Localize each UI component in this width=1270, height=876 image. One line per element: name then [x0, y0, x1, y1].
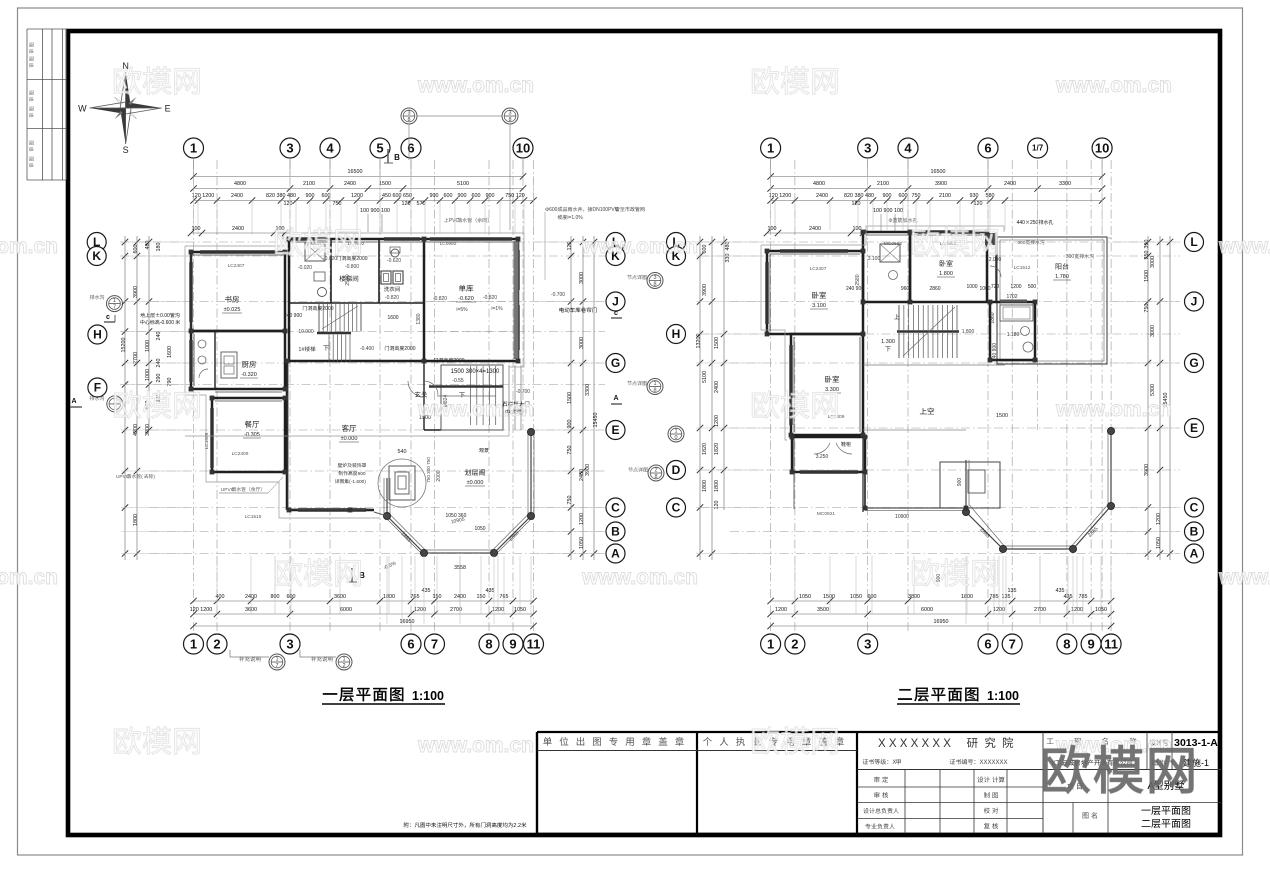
svg-text:120: 120: [284, 201, 293, 207]
svg-text:240 900: 240 900: [284, 313, 302, 319]
svg-text:审 图: 审 图: [29, 90, 36, 101]
svg-text:1: 1: [190, 140, 197, 155]
svg-text:1:100: 1:100: [987, 689, 1019, 703]
svg-text:750 120: 750 120: [505, 193, 525, 199]
svg-text:B: B: [1190, 525, 1199, 539]
svg-text:www.om.cn: www.om.cn: [581, 235, 698, 258]
svg-text:2100: 2100: [877, 181, 889, 187]
svg-text:2400: 2400: [344, 181, 356, 187]
svg-text:1.800: 1.800: [962, 329, 975, 335]
svg-text:1.300: 1.300: [881, 339, 895, 345]
svg-text:2400: 2400: [809, 226, 821, 232]
svg-text:审 图: 审 图: [29, 42, 36, 53]
svg-text:8: 8: [407, 117, 410, 123]
svg-text:-0.305: -0.305: [244, 432, 260, 438]
svg-text:120 1200: 120 1200: [769, 193, 791, 199]
svg-text:1050: 1050: [579, 537, 585, 549]
svg-text:A: A: [71, 398, 76, 405]
svg-text:1/7: 1/7: [1032, 144, 1044, 153]
svg-text:1820: 1820: [702, 443, 708, 455]
svg-text:3.100: 3.100: [812, 303, 826, 309]
svg-text:-0.620: -0.620: [323, 256, 337, 262]
svg-text:5300: 5300: [1150, 384, 1156, 396]
svg-text:-0.55: -0.55: [452, 378, 464, 384]
svg-text:120: 120: [567, 242, 573, 251]
svg-text:450 600 650: 450 600 650: [382, 193, 412, 199]
svg-text:i=1%: i=1%: [491, 306, 503, 312]
svg-text:135: 135: [1008, 588, 1017, 594]
svg-text:0.00: 0.00: [160, 313, 170, 319]
svg-text:435: 435: [1056, 588, 1065, 594]
svg-text:8: 8: [654, 474, 657, 480]
svg-text:LC1515: LC1515: [245, 514, 262, 520]
svg-text:DN100PVC: DN100PVC: [593, 207, 619, 213]
svg-text:审 图: 审 图: [29, 140, 36, 151]
svg-text:900: 900: [567, 420, 573, 429]
svg-text:LC2407: LC2407: [810, 266, 827, 272]
svg-text:-0.400: -0.400: [360, 346, 374, 352]
svg-text:1: 1: [190, 636, 197, 651]
svg-text:X X X X X X X: X X X X X X X: [878, 738, 951, 750]
svg-text:120: 120: [402, 201, 411, 207]
svg-text:900: 900: [430, 193, 439, 199]
svg-text:3.100: 3.100: [868, 256, 881, 262]
svg-text:3: 3: [286, 140, 293, 155]
svg-text:1200: 1200: [579, 513, 585, 525]
svg-text:3000: 3000: [1150, 256, 1156, 268]
svg-text:3: 3: [508, 111, 511, 117]
svg-text:www.om.cn: www.om.cn: [1055, 398, 1172, 421]
svg-text:1200: 1200: [775, 607, 787, 613]
svg-text:1: 1: [767, 636, 774, 651]
svg-text:600: 600: [322, 193, 331, 199]
svg-text:120: 120: [974, 201, 983, 207]
svg-text:www.om.cn: www.om.cn: [0, 235, 58, 258]
svg-text:540: 540: [398, 449, 407, 455]
svg-text:S: S: [123, 145, 129, 155]
svg-text:750: 750: [567, 446, 573, 455]
svg-text:2000: 2000: [322, 306, 333, 312]
svg-text:i=1.0%: i=1.0%: [567, 215, 583, 221]
svg-text:1200: 1200: [351, 193, 363, 199]
svg-text:LC2407: LC2407: [228, 263, 245, 269]
svg-text:1500: 1500: [823, 594, 835, 600]
svg-text:-1: -1: [1201, 758, 1209, 768]
svg-text:100: 100: [853, 226, 862, 232]
svg-text:2860: 2860: [929, 286, 940, 292]
svg-text:6: 6: [984, 636, 991, 651]
svg-text:820 380 480: 820 380 480: [844, 193, 874, 199]
svg-text:-0.620: -0.620: [387, 258, 401, 264]
svg-text:120 1200: 120 1200: [190, 607, 212, 613]
svg-text:1500 300×4=1300: 1500 300×4=1300: [451, 369, 500, 375]
svg-text:6: 6: [984, 140, 991, 155]
svg-text:2.000: 2.000: [989, 257, 1002, 263]
svg-text:审 图: 审 图: [29, 56, 36, 67]
svg-text:330: 330: [725, 254, 731, 263]
svg-text:120: 120: [852, 201, 861, 207]
svg-text:9: 9: [509, 636, 516, 651]
svg-text:8: 8: [508, 117, 511, 123]
svg-text:1380: 1380: [416, 313, 422, 324]
svg-text:3013-1-A: 3013-1-A: [1174, 737, 1218, 749]
svg-text:3900: 3900: [935, 181, 947, 187]
svg-text:10: 10: [1095, 140, 1109, 155]
svg-text:LC1509: LC1509: [204, 432, 210, 449]
svg-text:1:100: 1:100: [412, 689, 444, 703]
svg-text:1: 1: [342, 657, 345, 663]
svg-text:750: 750: [333, 201, 342, 207]
svg-text:435: 435: [422, 588, 431, 594]
svg-text:J: J: [612, 295, 619, 309]
svg-text:300: 300: [1066, 254, 1075, 260]
svg-text:5: 5: [376, 140, 383, 155]
svg-text:16500: 16500: [931, 169, 946, 175]
svg-text:120 1200: 120 1200: [192, 193, 214, 199]
svg-text:F: F: [94, 381, 101, 395]
svg-text:600: 600: [899, 193, 908, 199]
svg-text:720: 720: [991, 284, 1000, 290]
svg-text:3000: 3000: [579, 272, 585, 284]
svg-text:390: 390: [1144, 240, 1150, 249]
svg-text:LC0992: LC0992: [440, 241, 457, 247]
svg-text:-0.620: -0.620: [458, 296, 474, 302]
svg-text:3.250: 3.250: [816, 454, 829, 460]
svg-text:2400: 2400: [232, 226, 244, 232]
svg-text:600: 600: [472, 193, 481, 199]
svg-text:www.om.cn: www.om.cn: [1218, 235, 1270, 258]
svg-text:6000: 6000: [921, 607, 933, 613]
svg-text:750: 750: [1144, 304, 1150, 313]
svg-text:8: 8: [653, 281, 656, 287]
svg-text:±0.000: ±0.000: [341, 436, 358, 442]
svg-text:1.800: 1.800: [939, 271, 953, 277]
svg-text:8: 8: [653, 387, 656, 393]
svg-text:1: 1: [275, 657, 278, 663]
svg-text:1000: 1000: [979, 286, 990, 292]
svg-text:240: 240: [156, 332, 162, 341]
svg-text:1500: 1500: [567, 392, 573, 404]
svg-text:900: 900: [957, 478, 963, 487]
svg-text:MC0692: MC0692: [884, 241, 902, 247]
svg-text:4: 4: [326, 140, 334, 155]
svg-text:-0.020: -0.020: [298, 265, 312, 271]
svg-text:8: 8: [1063, 636, 1070, 651]
svg-text:c: c: [106, 314, 110, 321]
svg-text:4: 4: [904, 140, 912, 155]
svg-text:1200: 1200: [1010, 284, 1021, 290]
svg-text:3900: 3900: [1144, 464, 1150, 476]
svg-text:100 900 100: 100 900 100: [873, 208, 903, 214]
svg-text:930: 930: [970, 193, 979, 199]
svg-text:1: 1: [767, 140, 774, 155]
svg-text:1800: 1800: [714, 480, 720, 492]
svg-text:6000: 6000: [340, 607, 352, 613]
svg-text:16500: 16500: [348, 169, 363, 175]
svg-text:11: 11: [1104, 636, 1118, 651]
svg-text:600: 600: [133, 245, 139, 254]
svg-text:LC2409: LC2409: [232, 451, 249, 457]
svg-text:3.300: 3.300: [825, 387, 839, 393]
svg-text:1.180: 1.180: [1007, 332, 1020, 338]
svg-text:PVC: PVC: [449, 218, 460, 224]
svg-text:B: B: [394, 153, 400, 162]
svg-text:750: 750: [912, 193, 921, 199]
svg-text:c: c: [614, 310, 618, 317]
svg-text:D: D: [672, 463, 681, 477]
svg-text:11: 11: [527, 636, 541, 651]
svg-text:790: 790: [167, 378, 173, 387]
svg-text:C: C: [1190, 501, 1199, 515]
svg-text:600: 600: [702, 245, 708, 254]
svg-text:600: 600: [444, 193, 453, 199]
svg-text:820 380 480: 820 380 480: [266, 193, 296, 199]
svg-text:3300: 3300: [1059, 181, 1071, 187]
svg-text:XXXXXXX: XXXXXXX: [979, 760, 1007, 766]
svg-text:570: 570: [417, 201, 426, 207]
svg-text:1000: 1000: [145, 340, 151, 352]
svg-text:1: 1: [674, 429, 677, 435]
svg-text:500: 500: [1028, 284, 1037, 290]
svg-text:290: 290: [156, 374, 162, 383]
svg-text:250: 250: [1030, 220, 1039, 226]
svg-text:3900: 3900: [702, 284, 708, 296]
svg-text:100: 100: [768, 226, 777, 232]
svg-text:2400: 2400: [714, 381, 720, 393]
svg-text:10900: 10900: [895, 514, 909, 520]
svg-text:X: X: [892, 760, 896, 766]
svg-text:6: 6: [407, 140, 414, 155]
svg-text:±0.000: ±0.000: [467, 480, 484, 486]
svg-text:1820: 1820: [714, 443, 720, 455]
svg-text:3: 3: [864, 140, 871, 155]
svg-text:3900: 3900: [133, 286, 139, 298]
svg-text:900: 900: [883, 193, 892, 199]
svg-text:2: 2: [654, 468, 657, 474]
svg-text:审 图: 审 图: [29, 156, 36, 167]
svg-text:4800: 4800: [234, 181, 246, 187]
svg-text:www.om.cn: www.om.cn: [417, 734, 534, 757]
svg-text:180: 180: [156, 243, 162, 252]
svg-text:G: G: [611, 356, 620, 370]
svg-text:E: E: [165, 104, 171, 114]
svg-text:100 900 100: 100 900 100: [360, 208, 390, 214]
svg-text:440: 440: [1017, 220, 1026, 226]
svg-text:2400: 2400: [816, 193, 828, 199]
svg-text:1200: 1200: [714, 415, 720, 427]
svg-text:100: 100: [192, 226, 201, 232]
svg-text:H: H: [672, 327, 681, 341]
svg-text:-0.820: -0.820: [433, 296, 447, 302]
svg-text:W: W: [78, 104, 87, 114]
svg-text:2580: 2580: [345, 274, 351, 285]
svg-text:960: 960: [901, 286, 910, 292]
svg-text:2.2: 2.2: [513, 823, 521, 829]
svg-text:900: 900: [486, 193, 495, 199]
svg-text:10.000: 10.000: [298, 329, 314, 335]
svg-text:750 300 750: 750 300 750: [426, 457, 431, 483]
svg-text:审 图: 审 图: [29, 106, 36, 117]
svg-text:3: 3: [864, 636, 871, 651]
svg-text:C: C: [611, 501, 620, 515]
svg-text:www.om.cn: www.om.cn: [417, 74, 534, 97]
svg-text:16950: 16950: [934, 619, 949, 625]
svg-text:-0.600: -0.600: [160, 320, 174, 326]
svg-text:3000: 3000: [579, 337, 585, 349]
svg-text:www.om.cn: www.om.cn: [1218, 566, 1270, 589]
svg-text:A: A: [613, 395, 618, 402]
svg-text:i=5%: i=5%: [456, 307, 468, 313]
svg-text:3900: 3900: [585, 464, 591, 476]
svg-text:10: 10: [516, 140, 530, 155]
svg-text:900: 900: [458, 193, 467, 199]
svg-text:120: 120: [714, 501, 720, 510]
svg-text:L: L: [1190, 235, 1197, 249]
svg-text:1050: 1050: [474, 526, 485, 532]
svg-text:3: 3: [653, 275, 656, 281]
svg-text:5100: 5100: [702, 371, 708, 383]
svg-text:3300: 3300: [585, 384, 591, 396]
svg-text:6: 6: [407, 636, 414, 651]
svg-text:2000: 2000: [453, 358, 464, 364]
svg-text:A: A: [1190, 547, 1199, 561]
svg-text:1: 1: [113, 298, 116, 304]
svg-text:435: 435: [486, 588, 495, 594]
svg-text:480: 480: [725, 242, 731, 251]
svg-text:www.om.cn: www.om.cn: [581, 566, 698, 589]
svg-text:-0.820: -0.820: [483, 295, 497, 301]
svg-text:K: K: [92, 249, 101, 263]
svg-text:2100: 2100: [939, 193, 951, 199]
svg-text:2000: 2000: [436, 470, 442, 481]
svg-text:2: 2: [342, 663, 345, 669]
svg-text:-0.700: -0.700: [516, 389, 530, 395]
svg-text:2000: 2000: [356, 256, 367, 262]
svg-text:0: 0: [674, 435, 677, 441]
svg-text:3000: 3000: [1150, 325, 1156, 337]
svg-text:J: J: [1191, 295, 1198, 309]
svg-text:1: 1: [653, 381, 656, 387]
svg-text:240 900: 240 900: [846, 286, 864, 292]
svg-text:1#: 1#: [298, 347, 305, 353]
svg-text:3500: 3500: [817, 607, 829, 613]
svg-text:www.om.cn: www.om.cn: [0, 566, 58, 589]
svg-text:1860: 1860: [990, 312, 996, 323]
svg-text:1800: 1800: [702, 480, 708, 492]
svg-text:7: 7: [113, 304, 116, 310]
svg-text:G: G: [1189, 356, 1198, 370]
svg-text:1600: 1600: [167, 346, 173, 358]
svg-text:240 900: 240 900: [992, 343, 998, 361]
svg-text:900: 900: [306, 193, 315, 199]
svg-text:2: 2: [213, 636, 220, 651]
svg-text:7: 7: [275, 663, 278, 669]
svg-text:15450: 15450: [593, 413, 599, 428]
svg-text:H: H: [93, 328, 102, 342]
svg-text:1500: 1500: [996, 413, 1008, 419]
svg-text:-0.820: -0.820: [385, 295, 399, 301]
svg-text:-0.800: -0.800: [345, 264, 359, 270]
svg-text:±0.025: ±0.025: [224, 307, 241, 313]
svg-text:E: E: [611, 423, 619, 437]
svg-text:15200: 15200: [121, 338, 127, 353]
svg-text:1050: 1050: [799, 594, 811, 600]
svg-text:2400: 2400: [231, 193, 243, 199]
svg-text:LC1512: LC1512: [1014, 265, 1031, 271]
svg-text:9: 9: [1087, 636, 1094, 651]
svg-text:2000: 2000: [404, 346, 415, 352]
svg-text:www.om.cn: www.om.cn: [1055, 74, 1172, 97]
svg-text:2580: 2580: [855, 274, 861, 285]
svg-text:600: 600: [549, 207, 558, 213]
svg-text:C: C: [672, 501, 681, 515]
svg-text:1.780: 1.780: [1055, 274, 1069, 280]
svg-text:MC0921: MC0921: [817, 511, 835, 517]
svg-text:1000: 1000: [145, 369, 151, 381]
svg-text:-0.700: -0.700: [551, 292, 565, 298]
svg-text:580: 580: [986, 193, 995, 199]
svg-text:7: 7: [1009, 636, 1016, 651]
svg-text:1600: 1600: [387, 315, 398, 321]
svg-text:1702: 1702: [1006, 294, 1017, 300]
svg-text:3: 3: [407, 111, 410, 117]
svg-text:13200: 13200: [696, 334, 702, 349]
svg-text:E: E: [1190, 421, 1198, 435]
svg-text:2100: 2100: [303, 181, 315, 187]
svg-text:1200: 1200: [1156, 513, 1162, 525]
svg-text:1800: 1800: [133, 514, 139, 526]
svg-text:2400: 2400: [1004, 181, 1016, 187]
svg-text:A: A: [611, 547, 620, 561]
svg-text:www.om.cn: www.om.cn: [417, 398, 534, 421]
svg-text:1500: 1500: [379, 181, 391, 187]
svg-text:1500: 1500: [714, 337, 720, 349]
svg-text:2: 2: [791, 636, 798, 651]
svg-text:5100: 5100: [457, 181, 469, 187]
svg-text:1500: 1500: [1144, 270, 1150, 282]
svg-text:B: B: [611, 525, 620, 539]
svg-text:7: 7: [431, 636, 438, 651]
svg-text:750: 750: [567, 496, 573, 505]
svg-text:-0.320: -0.320: [241, 372, 257, 378]
svg-text:3: 3: [286, 636, 293, 651]
svg-text:1050: 1050: [1156, 537, 1162, 549]
svg-text:1000: 1000: [966, 284, 977, 290]
svg-text:8: 8: [485, 636, 492, 651]
svg-text:4800: 4800: [813, 181, 825, 187]
svg-text:2700: 2700: [133, 352, 139, 364]
